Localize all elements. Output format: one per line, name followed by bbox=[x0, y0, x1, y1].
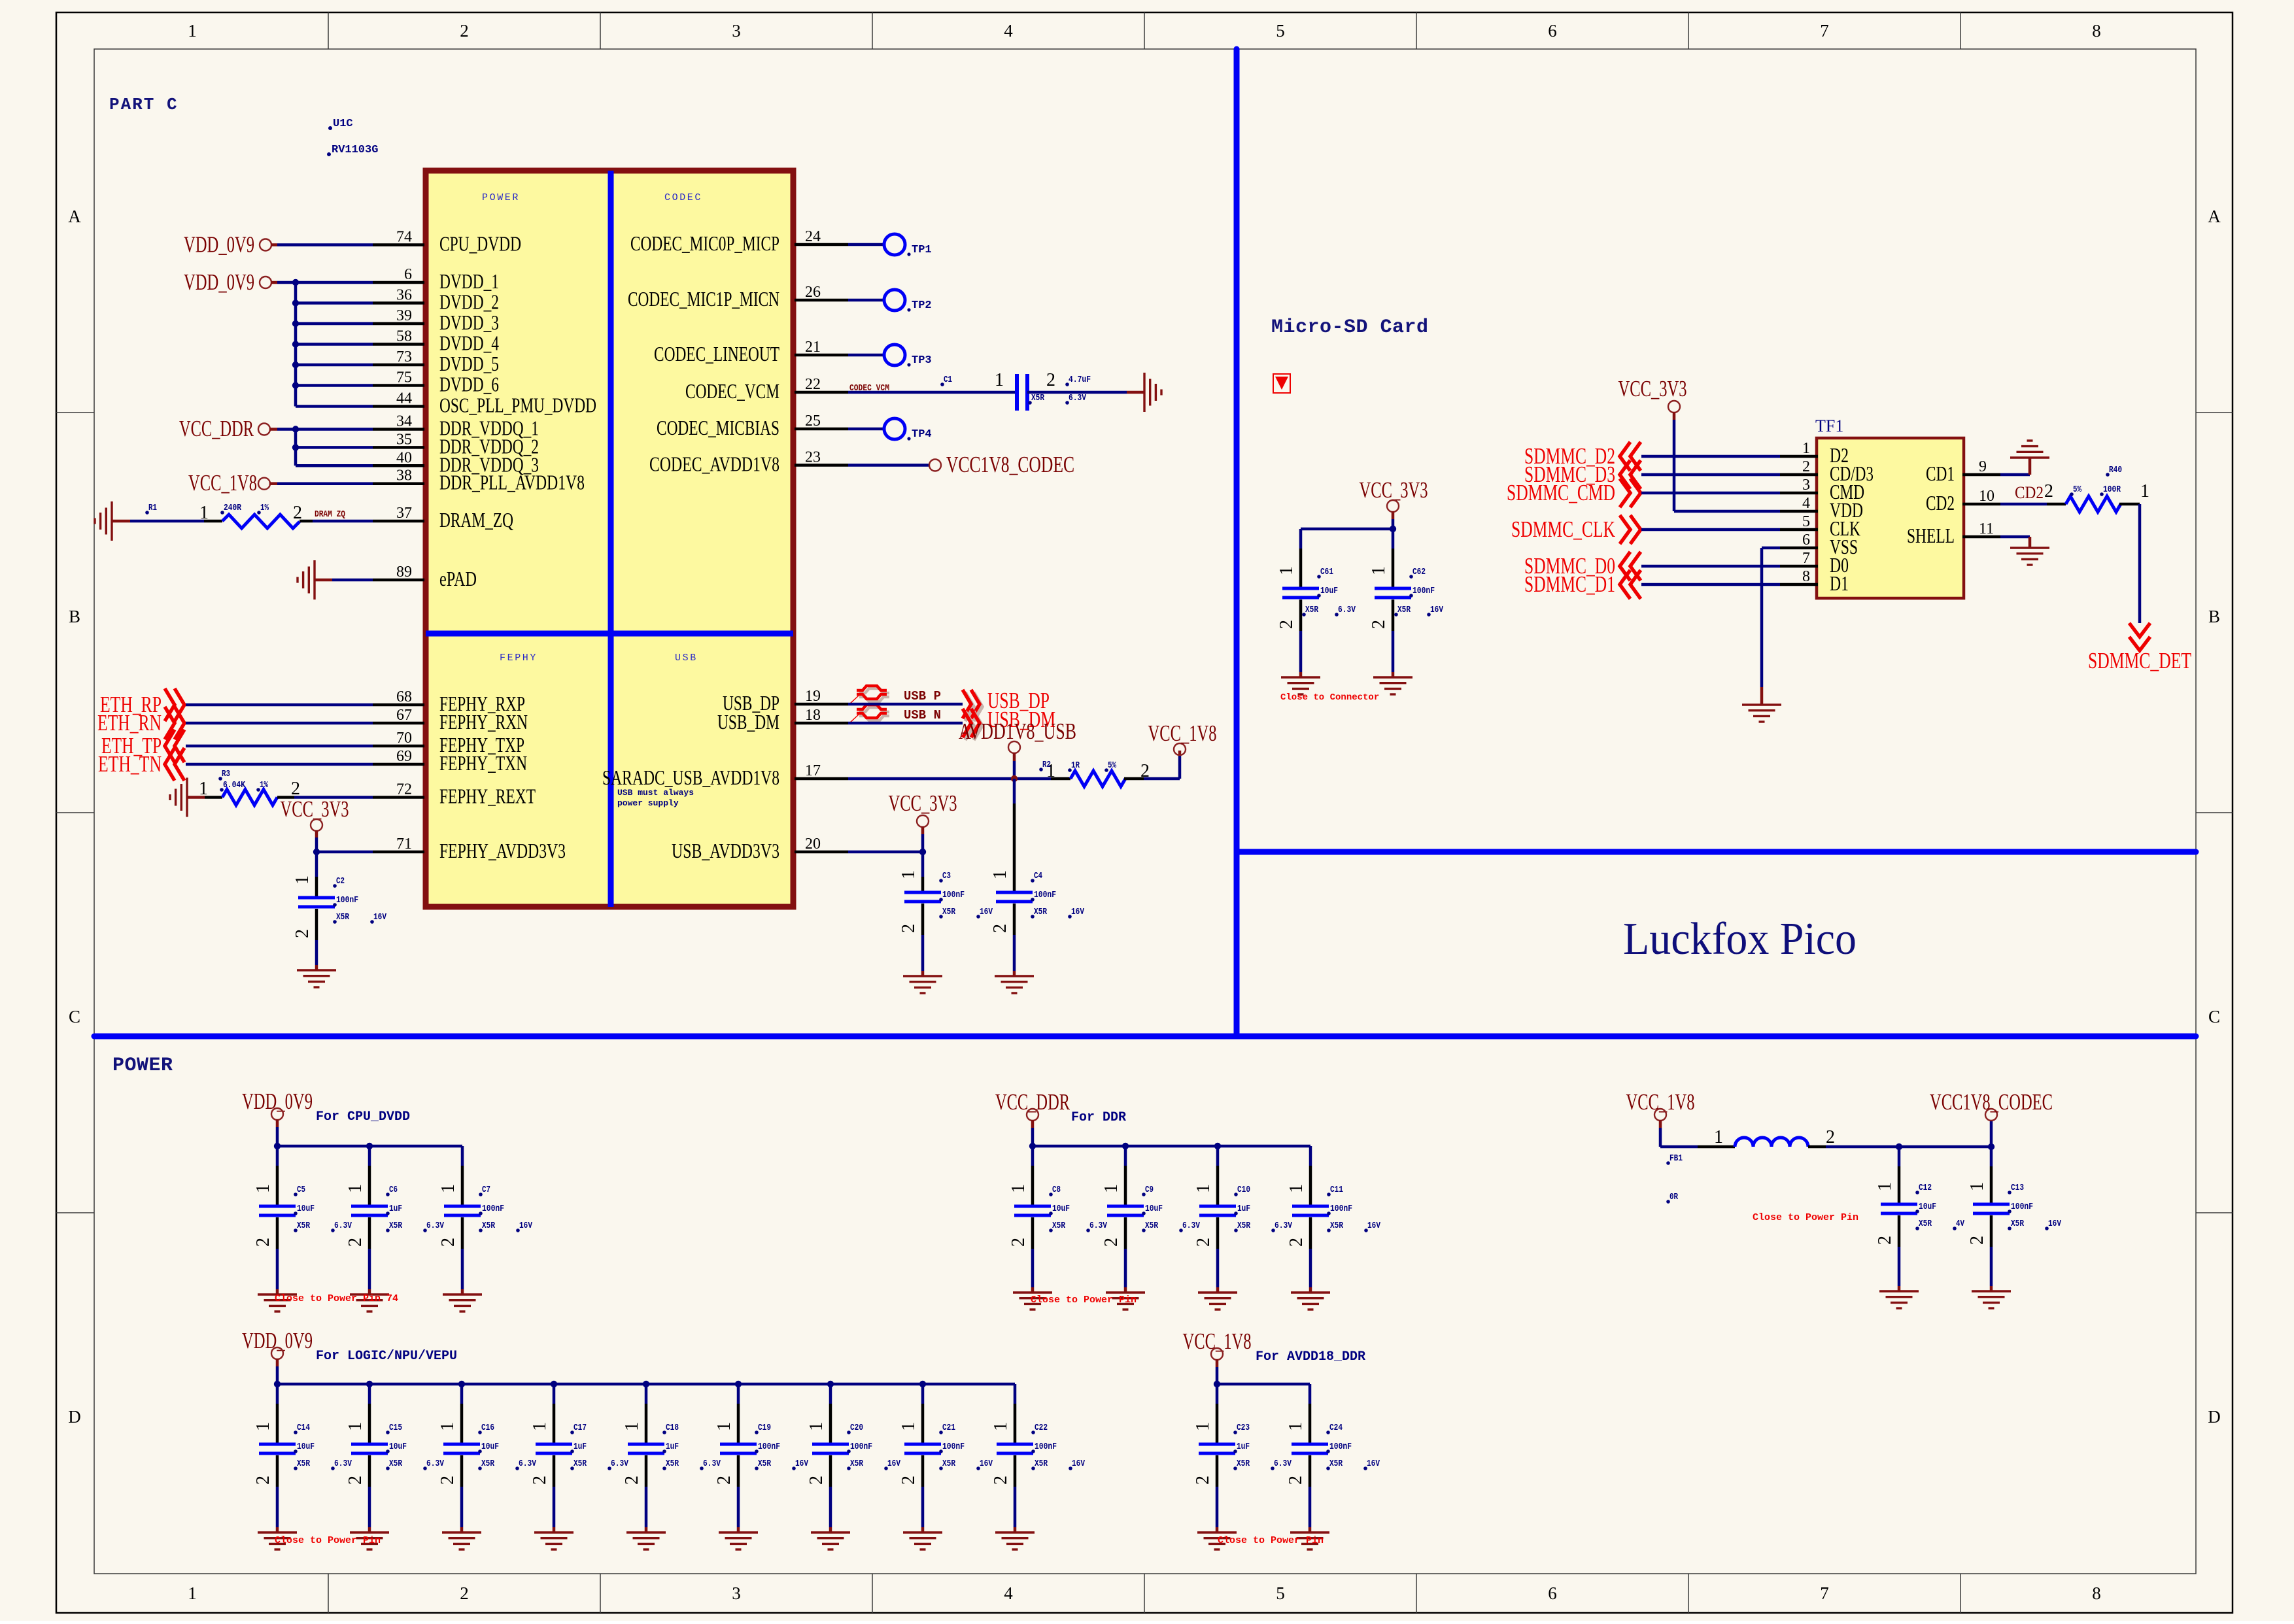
svg-text:CPU_DVDD: CPU_DVDD bbox=[439, 232, 521, 256]
svg-text:X5R: X5R bbox=[1919, 1219, 1932, 1229]
svg-text:6.3V: 6.3V bbox=[334, 1221, 352, 1231]
svg-text:36: 36 bbox=[396, 287, 412, 304]
junction bbox=[292, 362, 299, 368]
pin 36 DVDD_2 bbox=[373, 301, 424, 305]
svg-text:VCC_DDR: VCC_DDR bbox=[179, 416, 254, 441]
differential pair marker USB_N bbox=[859, 707, 889, 720]
svg-text:X5R: X5R bbox=[297, 1221, 310, 1231]
svg-text:25: 25 bbox=[805, 413, 821, 430]
svg-text:16V: 16V bbox=[1072, 1459, 1085, 1469]
junction bbox=[366, 1143, 373, 1149]
TF1 pin 4 VDD bbox=[1780, 510, 1818, 513]
pin 6 DVDD_1 bbox=[373, 281, 424, 284]
capacitor C18 1uF bbox=[645, 1384, 648, 1404]
svg-text:3: 3 bbox=[732, 21, 741, 41]
svg-text:23: 23 bbox=[805, 449, 821, 466]
pin 58 DVDD_4 bbox=[373, 343, 424, 346]
pin 89 ePAD bbox=[373, 579, 424, 582]
svg-text:2: 2 bbox=[1286, 1238, 1307, 1247]
svg-text:B: B bbox=[69, 607, 80, 626]
svg-text:2: 2 bbox=[253, 1238, 273, 1247]
svg-text:69: 69 bbox=[396, 748, 412, 765]
svg-text:1: 1 bbox=[995, 370, 1004, 390]
TF1 pin 11 SHELL bbox=[1962, 535, 2000, 539]
capacitor C62 100nF bbox=[1392, 529, 1395, 549]
junction bbox=[1390, 526, 1396, 532]
svg-text:SDMMC_DET: SDMMC_DET bbox=[2088, 648, 2191, 673]
svg-text:16V: 16V bbox=[373, 912, 386, 922]
wire VCC_1V8 to pin38 bbox=[269, 482, 277, 485]
wire VSS to ground bbox=[1762, 547, 1780, 550]
svg-text:100nF: 100nF bbox=[1412, 586, 1435, 596]
junction bbox=[366, 1381, 373, 1387]
svg-text:6: 6 bbox=[404, 266, 412, 283]
ground (CODEC_VCM) bbox=[1144, 373, 1161, 412]
capacitor C2 100nF bbox=[315, 852, 318, 877]
svg-text:16V: 16V bbox=[980, 1459, 993, 1469]
svg-text:C4: C4 bbox=[1034, 871, 1042, 881]
ground bbox=[995, 1532, 1035, 1549]
svg-text:74: 74 bbox=[396, 229, 412, 246]
svg-text:4: 4 bbox=[1004, 1583, 1013, 1603]
wire SD cap bus bbox=[1301, 528, 1393, 531]
svg-text:1: 1 bbox=[899, 1422, 919, 1431]
power port VCC1V8_CODEC (pin23) bbox=[848, 464, 930, 467]
svg-text:11: 11 bbox=[1979, 520, 1994, 537]
svg-text:6.3V: 6.3V bbox=[426, 1459, 444, 1469]
IC U1C section dividers bbox=[608, 171, 614, 907]
svg-text:1: 1 bbox=[714, 1422, 734, 1431]
svg-text:6.3V: 6.3V bbox=[1338, 605, 1356, 615]
svg-text:D: D bbox=[2208, 1407, 2221, 1427]
svg-text:73: 73 bbox=[396, 348, 412, 365]
junction bbox=[1029, 1143, 1036, 1149]
svg-text:CODEC: CODEC bbox=[664, 192, 702, 203]
svg-text:10uF: 10uF bbox=[1145, 1204, 1163, 1214]
junction bbox=[551, 1381, 557, 1387]
svg-text:10uF: 10uF bbox=[1919, 1202, 1936, 1212]
wire ETH_RP bbox=[186, 703, 373, 707]
svg-text:C12: C12 bbox=[1919, 1183, 1932, 1193]
svg-text:100nF: 100nF bbox=[942, 1442, 965, 1452]
svg-text:1: 1 bbox=[1967, 1182, 1987, 1191]
svg-text:Luckfox Pico: Luckfox Pico bbox=[1623, 914, 1857, 964]
svg-text:C13: C13 bbox=[2011, 1183, 2024, 1193]
svg-text:1: 1 bbox=[1369, 566, 1389, 575]
svg-text:4.7uF: 4.7uF bbox=[1069, 375, 1091, 385]
svg-text:24: 24 bbox=[805, 228, 821, 245]
wire DVDD branch bbox=[296, 364, 373, 367]
junction bbox=[292, 426, 299, 432]
svg-text:1%: 1% bbox=[260, 503, 269, 513]
svg-text:1: 1 bbox=[1714, 1127, 1723, 1147]
svg-text:68: 68 bbox=[396, 688, 412, 705]
junction bbox=[292, 444, 299, 450]
svg-text:VDD_0V9: VDD_0V9 bbox=[242, 1328, 313, 1353]
resistor R2 1R bbox=[1051, 777, 1070, 781]
svg-text:10uF: 10uF bbox=[297, 1204, 315, 1214]
pin 39 DVDD_3 bbox=[373, 322, 424, 326]
pin 34 DDR_VDDQ_1 bbox=[373, 428, 424, 431]
svg-text:4: 4 bbox=[1004, 21, 1013, 41]
svg-text:58: 58 bbox=[396, 328, 412, 345]
svg-text:C24: C24 bbox=[1329, 1423, 1343, 1433]
wire VDD_0V9 to DVDD bus bbox=[271, 281, 277, 284]
capacitor C15 10uF bbox=[368, 1384, 371, 1404]
capacitor C10 1uF bbox=[1216, 1146, 1220, 1166]
svg-text:FEPHY_TXN: FEPHY_TXN bbox=[439, 751, 527, 775]
svg-text:VCC_1V8: VCC_1V8 bbox=[1626, 1089, 1695, 1115]
ground bbox=[534, 1532, 573, 1549]
svg-text:10uF: 10uF bbox=[481, 1442, 499, 1452]
wire R2 to VCC_1V8 bbox=[1144, 777, 1180, 781]
svg-text:Close to Power Pin: Close to Power Pin bbox=[275, 1535, 381, 1546]
ground bbox=[1013, 1293, 1052, 1310]
svg-text:2: 2 bbox=[1101, 1238, 1121, 1247]
net port USB_DM chevron bbox=[965, 711, 982, 740]
svg-text:100nF: 100nF bbox=[1330, 1204, 1352, 1214]
svg-text:CD1: CD1 bbox=[1926, 462, 1955, 485]
svg-text:R2: R2 bbox=[1042, 760, 1051, 770]
wire USB_DP bbox=[848, 703, 963, 706]
wire ePAD bbox=[315, 579, 332, 582]
svg-text:X5R: X5R bbox=[758, 1459, 771, 1469]
svg-text:2: 2 bbox=[1276, 620, 1297, 629]
ground bbox=[258, 1532, 297, 1549]
svg-text:TF1: TF1 bbox=[1815, 416, 1843, 435]
svg-text:6.3V: 6.3V bbox=[334, 1459, 352, 1469]
svg-text:VCC_3V3: VCC_3V3 bbox=[889, 790, 957, 816]
capacitor C12 10uF bbox=[1898, 1147, 1901, 1166]
pin 26 CODEC_MIC1P_MICN bbox=[795, 299, 848, 302]
wire pin17 to R2 bbox=[848, 777, 1051, 781]
svg-text:2: 2 bbox=[530, 1476, 550, 1485]
junction bbox=[274, 1381, 281, 1387]
svg-text:C16: C16 bbox=[481, 1423, 494, 1433]
svg-text:34: 34 bbox=[396, 413, 412, 430]
ground bbox=[442, 1532, 481, 1549]
svg-text:16V: 16V bbox=[887, 1459, 900, 1469]
svg-text:1: 1 bbox=[1193, 1184, 1214, 1193]
svg-text:2: 2 bbox=[1286, 1476, 1306, 1485]
svg-text:C19: C19 bbox=[758, 1423, 771, 1433]
svg-text:240R: 240R bbox=[224, 503, 241, 513]
wire VCC_3V3 down bbox=[921, 826, 925, 834]
svg-text:21: 21 bbox=[805, 339, 821, 356]
wire cap bus bbox=[277, 1145, 462, 1148]
svg-text:10: 10 bbox=[1979, 488, 1994, 505]
svg-text:6: 6 bbox=[1548, 1583, 1557, 1603]
ground bbox=[443, 1294, 482, 1311]
svg-text:16V: 16V bbox=[1367, 1221, 1380, 1231]
svg-text:6.3V: 6.3V bbox=[519, 1459, 536, 1469]
svg-text:70: 70 bbox=[396, 730, 412, 747]
TF1 pin 3 CMD bbox=[1780, 492, 1818, 495]
svg-text:2: 2 bbox=[460, 1583, 469, 1603]
svg-text:1: 1 bbox=[345, 1184, 366, 1193]
resistor R40 100R bbox=[2047, 503, 2066, 506]
svg-text:CODEC_VCM: CODEC_VCM bbox=[685, 379, 779, 403]
svg-text:VCC_DDR: VCC_DDR bbox=[995, 1089, 1070, 1115]
capacitor C11 100nF bbox=[1309, 1146, 1312, 1166]
svg-text:10uF: 10uF bbox=[297, 1442, 315, 1452]
svg-text:FEPHY: FEPHY bbox=[500, 652, 538, 664]
TF1 pin 5 CLK bbox=[1780, 528, 1818, 532]
svg-text:6.3V: 6.3V bbox=[1089, 1221, 1107, 1231]
svg-text:2: 2 bbox=[437, 1476, 458, 1485]
svg-text:1: 1 bbox=[1193, 1422, 1213, 1431]
resistor R1 240R bbox=[112, 520, 130, 523]
svg-text:For LOGIC/NPU/VEPU: For LOGIC/NPU/VEPU bbox=[316, 1349, 457, 1364]
TF1 pin 9 CD1 bbox=[1962, 473, 2000, 477]
wire VCC_3V3 to VDD pin bbox=[1673, 412, 1676, 420]
svg-text:17: 17 bbox=[805, 762, 821, 779]
ground bbox=[1290, 1532, 1329, 1549]
capacitor C4 100nF bbox=[1013, 779, 1016, 804]
ground bbox=[1972, 1291, 2011, 1308]
svg-text:SARADC_USB_AVDD1V8: SARADC_USB_AVDD1V8 bbox=[602, 766, 779, 789]
ground bbox=[903, 1532, 942, 1549]
wire SHELL to ground bbox=[2000, 535, 2030, 539]
pin 24 CODEC_MIC0P_MICP bbox=[795, 243, 848, 246]
svg-text:Close to Power Pin: Close to Power Pin bbox=[1753, 1212, 1858, 1223]
svg-text:X5R: X5R bbox=[297, 1459, 310, 1469]
capacitor C7 100nF bbox=[461, 1146, 464, 1166]
svg-text:100nF: 100nF bbox=[1034, 890, 1056, 900]
capacitor C14 10uF bbox=[276, 1384, 279, 1404]
svg-text:2: 2 bbox=[1193, 1238, 1214, 1247]
svg-text:2: 2 bbox=[990, 924, 1010, 933]
svg-text:9: 9 bbox=[1979, 458, 1987, 475]
svg-text:19: 19 bbox=[805, 688, 821, 705]
svg-text:U1C: U1C bbox=[333, 118, 353, 130]
svg-text:100nF: 100nF bbox=[336, 895, 358, 905]
junction bbox=[1011, 775, 1018, 782]
svg-text:Close to Power Pin: Close to Power Pin bbox=[1031, 1294, 1137, 1306]
svg-text:C1: C1 bbox=[944, 375, 952, 385]
svg-text:Close to Power Pin 74: Close to Power Pin 74 bbox=[275, 1293, 398, 1304]
svg-text:VCC1V8_CODEC: VCC1V8_CODEC bbox=[1930, 1089, 2053, 1115]
ground bbox=[297, 970, 336, 987]
junction bbox=[735, 1381, 742, 1387]
junction bbox=[292, 299, 299, 306]
svg-text:VCC_3V3: VCC_3V3 bbox=[1618, 376, 1687, 401]
svg-text:5: 5 bbox=[1276, 21, 1285, 41]
svg-text:2: 2 bbox=[1826, 1127, 1835, 1147]
test point TP1 bbox=[848, 243, 884, 246]
svg-text:CODEC_MIC1P_MICN: CODEC_MIC1P_MICN bbox=[628, 287, 779, 311]
wire AVDD1V8_USB down bbox=[1013, 753, 1016, 761]
svg-text:X5R: X5R bbox=[666, 1459, 679, 1469]
svg-text:2: 2 bbox=[1008, 1238, 1029, 1247]
svg-text:C9: C9 bbox=[1145, 1185, 1154, 1195]
wire VCC_1V8 down bbox=[1216, 1359, 1219, 1367]
svg-text:6: 6 bbox=[1548, 21, 1557, 41]
capacitor C23 1uF bbox=[1216, 1384, 1219, 1404]
capacitor C17 1uF bbox=[553, 1384, 556, 1404]
test point TP4 bbox=[848, 428, 884, 431]
junction bbox=[313, 849, 320, 855]
svg-text:1: 1 bbox=[1008, 1184, 1029, 1193]
svg-text:ETH_TN: ETH_TN bbox=[98, 751, 162, 777]
svg-text:USB N: USB N bbox=[904, 708, 941, 722]
pin 25 CODEC_MICBIAS bbox=[795, 428, 848, 431]
svg-text:X5R: X5R bbox=[1329, 1459, 1343, 1469]
wire SDMMC_D2 bbox=[1641, 455, 1780, 458]
capacitor C16 10uF bbox=[460, 1384, 464, 1404]
svg-text:39: 39 bbox=[396, 307, 412, 324]
svg-text:TP1: TP1 bbox=[912, 244, 932, 256]
svg-text:R40: R40 bbox=[2109, 465, 2122, 475]
svg-text:2: 2 bbox=[1369, 620, 1389, 629]
svg-text:6.3V: 6.3V bbox=[1182, 1221, 1200, 1231]
wire R40 down to SDMMC_DET bbox=[2138, 504, 2142, 623]
svg-text:For DDR: For DDR bbox=[1071, 1110, 1126, 1125]
pin 35 DDR_VDDQ_2 bbox=[373, 446, 424, 449]
junction bbox=[919, 849, 926, 855]
svg-text:R3: R3 bbox=[222, 769, 230, 779]
inductor FB1 0R bbox=[1698, 1145, 1735, 1149]
svg-text:8: 8 bbox=[2092, 1583, 2101, 1603]
svg-text:0R: 0R bbox=[1669, 1192, 1678, 1202]
svg-text:SDMMC_CMD: SDMMC_CMD bbox=[1507, 480, 1615, 505]
pin 75 DVDD_6 bbox=[373, 384, 424, 387]
svg-text:10uF: 10uF bbox=[1320, 586, 1338, 596]
pin 44 OSC_PLL_PMU_DVDD bbox=[373, 405, 424, 408]
svg-text:1: 1 bbox=[1101, 1184, 1121, 1193]
svg-text:CODEC_AVDD1V8: CODEC_AVDD1V8 bbox=[649, 452, 779, 476]
wire DVDD branch bbox=[296, 322, 373, 326]
svg-text:VCC_3V3: VCC_3V3 bbox=[281, 796, 349, 822]
pin 20 USB_AVDD3V3 bbox=[795, 851, 848, 854]
svg-text:C2: C2 bbox=[336, 876, 345, 887]
pin 71 FEPHY_AVDD3V3 bbox=[373, 851, 424, 854]
svg-text:2: 2 bbox=[460, 21, 469, 41]
resistor R3 6.04K bbox=[187, 796, 205, 799]
TF1 pin 2 CD/D3 bbox=[1780, 473, 1818, 477]
svg-text:C22: C22 bbox=[1035, 1423, 1048, 1433]
ground bbox=[1373, 677, 1412, 694]
svg-text:1: 1 bbox=[253, 1184, 273, 1193]
wire VCC_DDR to bus bbox=[269, 428, 277, 431]
svg-text:X5R: X5R bbox=[942, 907, 955, 917]
svg-text:power supply: power supply bbox=[617, 798, 679, 808]
svg-text:2: 2 bbox=[438, 1238, 458, 1247]
svg-text:2: 2 bbox=[806, 1476, 827, 1485]
wire VDD_0V9 down bbox=[276, 1119, 279, 1127]
svg-text:3: 3 bbox=[1802, 477, 1810, 494]
svg-text:1uF: 1uF bbox=[1237, 1442, 1250, 1452]
svg-text:1: 1 bbox=[806, 1422, 827, 1431]
svg-text:2: 2 bbox=[899, 1476, 919, 1485]
svg-text:A: A bbox=[68, 207, 81, 226]
capacitor C21 100nF bbox=[921, 1384, 925, 1404]
svg-text:1uF: 1uF bbox=[389, 1204, 402, 1214]
ground bbox=[1879, 1291, 1919, 1308]
svg-text:18: 18 bbox=[805, 707, 821, 724]
svg-text:2: 2 bbox=[899, 924, 919, 933]
svg-text:1: 1 bbox=[253, 1422, 273, 1431]
capacitor C3 100nF bbox=[921, 852, 925, 877]
svg-text:TP4: TP4 bbox=[912, 428, 932, 441]
svg-text:1: 1 bbox=[188, 1583, 197, 1603]
svg-text:USB P: USB P bbox=[904, 689, 941, 703]
wire to pin71 bbox=[317, 851, 373, 854]
svg-text:38: 38 bbox=[396, 467, 412, 484]
svg-text:10uF: 10uF bbox=[1052, 1204, 1070, 1214]
svg-text:FEPHY_RXN: FEPHY_RXN bbox=[439, 710, 528, 734]
TF1 pin 7 D0 bbox=[1780, 565, 1818, 568]
svg-text:C: C bbox=[2208, 1007, 2220, 1026]
svg-text:6.3V: 6.3V bbox=[1275, 1221, 1292, 1231]
pin 74 CPU_DVDD bbox=[373, 243, 424, 246]
svg-text:X5R: X5R bbox=[482, 1221, 495, 1231]
svg-text:100nF: 100nF bbox=[1035, 1442, 1057, 1452]
junction bbox=[1988, 1143, 1994, 1150]
ground bbox=[1198, 1293, 1237, 1310]
svg-text:DVDD_6: DVDD_6 bbox=[439, 373, 499, 396]
pin 40 DDR_VDDQ_3 bbox=[373, 464, 424, 467]
ground bbox=[995, 976, 1034, 993]
svg-text:67: 67 bbox=[396, 707, 412, 724]
svg-text:X5R: X5R bbox=[942, 1459, 955, 1469]
junction bbox=[643, 1381, 649, 1387]
junction bbox=[919, 1381, 926, 1387]
svg-text:1: 1 bbox=[1286, 1184, 1307, 1193]
svg-text:VDD_0V9: VDD_0V9 bbox=[184, 232, 254, 258]
svg-text:1: 1 bbox=[1802, 440, 1810, 457]
svg-text:SDMMC_CLK: SDMMC_CLK bbox=[1511, 516, 1615, 542]
wire SDMMC_CLK bbox=[1641, 528, 1780, 532]
svg-text:CODEC_LINEOUT: CODEC_LINEOUT bbox=[654, 342, 779, 365]
wire DVDD branch bbox=[296, 343, 373, 346]
power port VCC_1V8 (USB) bbox=[1178, 751, 1182, 754]
pin 22 CODEC_VCM bbox=[795, 391, 848, 394]
svg-text:1: 1 bbox=[899, 870, 919, 879]
svg-text:71: 71 bbox=[396, 836, 412, 853]
ground (DRAM_ZQ) bbox=[95, 501, 112, 541]
junction bbox=[292, 320, 299, 327]
wire VCC_3V3 to cap bus bbox=[1392, 511, 1395, 519]
svg-text:C62: C62 bbox=[1412, 567, 1426, 577]
svg-text:CODEC_MICBIAS: CODEC_MICBIAS bbox=[657, 416, 779, 439]
svg-text:1: 1 bbox=[991, 1422, 1011, 1431]
capacitor C9 10uF bbox=[1124, 1146, 1127, 1166]
svg-text:7: 7 bbox=[1820, 21, 1829, 41]
svg-text:VDD_0V9: VDD_0V9 bbox=[184, 269, 254, 295]
svg-text:2: 2 bbox=[292, 929, 313, 938]
ground bbox=[1106, 1293, 1145, 1310]
TF1 pin 1 D2 bbox=[1780, 455, 1818, 458]
blue divider vertical bbox=[1234, 49, 1240, 1036]
svg-text:C18: C18 bbox=[666, 1423, 679, 1433]
svg-text:2: 2 bbox=[1046, 370, 1055, 390]
svg-text:10uF: 10uF bbox=[389, 1442, 407, 1452]
svg-text:C15: C15 bbox=[389, 1423, 402, 1433]
svg-text:X5R: X5R bbox=[481, 1459, 494, 1469]
svg-text:16V: 16V bbox=[1430, 605, 1443, 615]
svg-text:4: 4 bbox=[1802, 495, 1810, 512]
svg-text:100nF: 100nF bbox=[2011, 1202, 2033, 1212]
svg-text:SDMMC_D1: SDMMC_D1 bbox=[1524, 571, 1615, 597]
svg-text:PART C: PART C bbox=[109, 95, 179, 114]
TF1 pin 10 CD2 bbox=[1962, 503, 2000, 506]
svg-text:X5R: X5R bbox=[2011, 1219, 2024, 1229]
svg-text:DDR_PLL_AVDD1V8: DDR_PLL_AVDD1V8 bbox=[439, 471, 585, 494]
svg-text:VCC1V8_CODEC: VCC1V8_CODEC bbox=[946, 452, 1074, 477]
svg-text:2: 2 bbox=[345, 1238, 366, 1247]
ground bbox=[350, 1532, 389, 1549]
